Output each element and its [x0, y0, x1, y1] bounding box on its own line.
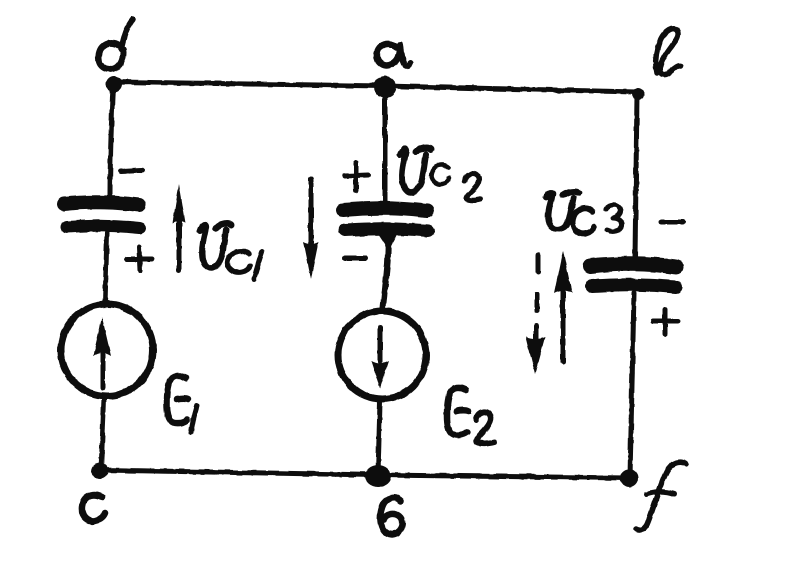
junction dot node l [632, 88, 644, 100]
arrow U_C3 solid up [554, 250, 572, 362]
wire d to C1 [110, 85, 113, 198]
source E2 [338, 311, 426, 399]
value label E1 [167, 376, 197, 433]
minus right of C3 [661, 220, 683, 225]
wire E2 to v [378, 402, 380, 474]
junction dot node v [365, 465, 391, 487]
wire C2 to E2 [379, 235, 397, 308]
node label d [99, 19, 133, 69]
wire a to C2 [383, 88, 388, 203]
junction dot node c [92, 463, 108, 479]
node label a [377, 44, 410, 66]
plus above C2 [345, 163, 368, 190]
junction dot node f [620, 469, 638, 487]
minus below C2 [345, 256, 366, 261]
source E1 [61, 304, 153, 396]
capacitor C3 [590, 264, 676, 287]
arrow U_C2 down [304, 179, 319, 279]
node label v [380, 498, 402, 535]
capacitor C1 [64, 202, 140, 228]
wire C3 to f [630, 293, 634, 477]
value label U_C1 [200, 224, 262, 279]
value label E2 [447, 388, 494, 444]
wire top d-a-l [113, 82, 637, 92]
node label f [636, 462, 686, 530]
wire E1 to c [101, 399, 104, 471]
node label c [82, 495, 105, 521]
junction dot node a [374, 76, 396, 98]
capacitor C2 [343, 208, 428, 231]
wire bottom c-v-f [100, 470, 629, 478]
node label l [656, 29, 681, 75]
wire C1 to E1 [105, 233, 107, 304]
value label U_C2 [400, 148, 481, 201]
plus below C1 [127, 247, 152, 271]
junction dot node d [106, 76, 122, 92]
value label U_C3 [546, 191, 622, 233]
minus above C1 [121, 170, 142, 171]
plus below C3 [653, 309, 678, 334]
arrow U_C3 dashed down [526, 255, 545, 374]
arrow U_C1 up [173, 184, 186, 270]
wire l to C3 [635, 94, 637, 259]
